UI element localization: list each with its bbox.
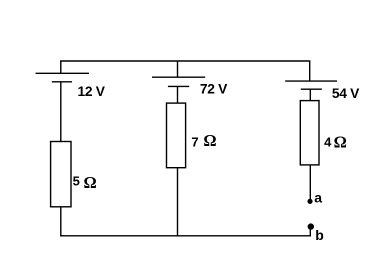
- battery 12 V positive plate: [36, 72, 89, 74]
- wire terminal b to bottom rail: [309, 228, 311, 237]
- wire left branch battery to resistor: [60, 82, 62, 142]
- svg-text:a: a: [314, 189, 322, 205]
- battery 54 V negative plate: [301, 88, 322, 90]
- svg-text:5Ω: 5Ω: [73, 173, 97, 192]
- resistor 7 ohm body: [167, 103, 186, 168]
- wire bottom rail: [60, 235, 310, 237]
- node b terminal dot: [308, 223, 314, 229]
- resistor 4 ohm body: [300, 101, 319, 165]
- wire top rail: [60, 60, 310, 62]
- battery 12 V negative plate: [52, 81, 72, 83]
- svg-text:4Ω: 4Ω: [324, 133, 347, 152]
- wire left branch resistor to bottom rail: [60, 207, 62, 237]
- wire right branch battery to resistor: [309, 89, 311, 100]
- wire right branch resistor to terminal a: [309, 165, 311, 200]
- svg-text:7Ω: 7Ω: [191, 131, 216, 150]
- wire middle branch battery to resistor: [177, 86, 179, 103]
- wire left branch top riser: [60, 61, 62, 73]
- wire middle branch top riser: [177, 61, 179, 77]
- battery 72 V negative plate: [168, 85, 189, 87]
- svg-text:12 V: 12 V: [78, 84, 106, 99]
- svg-text:54 V: 54 V: [332, 86, 360, 101]
- battery 54 V positive plate: [285, 80, 337, 82]
- wire right branch top riser: [309, 61, 311, 81]
- svg-text:72 V: 72 V: [200, 82, 228, 97]
- battery 72 V positive plate: [152, 76, 205, 78]
- wire middle branch resistor to bottom rail: [177, 168, 179, 237]
- resistor 5 ohm body: [51, 142, 71, 207]
- svg-text:b: b: [315, 227, 324, 243]
- node a terminal dot: [307, 199, 312, 204]
